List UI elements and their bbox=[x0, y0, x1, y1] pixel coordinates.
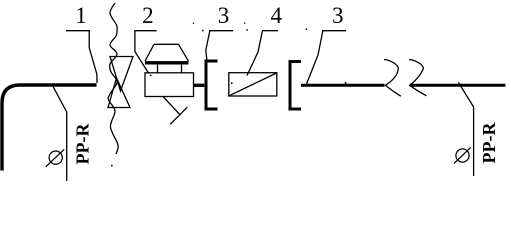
svg-text:PP-R: PP-R bbox=[479, 122, 499, 164]
svg-text:3: 3 bbox=[218, 3, 230, 28]
svg-text:3: 3 bbox=[332, 3, 344, 28]
svg-text:2: 2 bbox=[142, 3, 154, 28]
svg-text:4: 4 bbox=[271, 3, 283, 28]
svg-text:PP-R: PP-R bbox=[73, 123, 93, 165]
svg-text:1: 1 bbox=[75, 3, 87, 28]
